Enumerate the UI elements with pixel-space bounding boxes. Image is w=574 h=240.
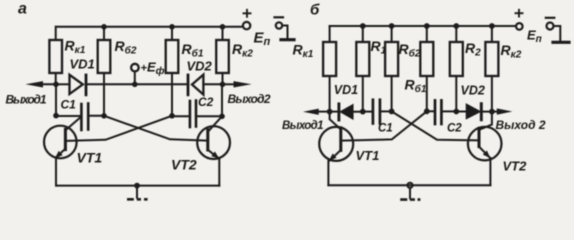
arrow output 1 (Выход1) [41, 83, 56, 85]
node dot rail/Rб1 [169, 24, 175, 30]
svg-text:VT1: VT1 [356, 148, 380, 163]
wire cross-coupling Rб1/C2 to VT1 base [342, 111, 426, 140]
resistor R2 [455, 26, 457, 42]
node dot Rб1 junction [424, 108, 430, 114]
node dot rail/Rб1 [424, 23, 430, 29]
resistor Rб2 [391, 26, 393, 42]
capacitor C2 [434, 100, 437, 124]
node dot C1 left [53, 113, 59, 119]
collector diagonal VT2 [209, 116, 222, 130]
node dot C1/Rб2 junction [101, 113, 107, 119]
wire collector node to VD1 cathode [330, 111, 337, 113]
node dot C2 right [219, 114, 225, 120]
wire C1 right plate to Rб2 node [381, 110, 391, 112]
node dot R2 junction [453, 109, 459, 115]
svg-text:VD2: VD2 [461, 84, 485, 98]
svg-text:а: а [18, 1, 27, 18]
arrow output 2 (Выход 2) [492, 111, 497, 113]
terminal +Eп (open circle) [243, 22, 250, 29]
svg-text:Выход1: Выход1 [282, 120, 324, 132]
plus sign of Eп terminal [244, 10, 251, 17]
wire emitter VT2 drop [218, 159, 220, 186]
node dot C2/Rб1 junction [169, 113, 175, 119]
node dot rail/Rб2 [389, 23, 395, 29]
node dot collector VT1 [53, 82, 59, 88]
wire C2 right plate to R2 node [443, 110, 457, 112]
svg-text:VD1: VD1 [334, 83, 358, 97]
svg-text:VD2: VD2 [187, 59, 213, 74]
terminal -Eп (open circle) [276, 22, 282, 28]
resistor Rк1 [55, 27, 57, 40]
terminal +Eп (open circle) [516, 23, 523, 30]
transistor VT2 [197, 126, 230, 159]
diode VD2 [187, 75, 190, 95]
collector diagonal VT2 [480, 112, 492, 130]
collector diagonal VT1 [330, 112, 341, 129]
wire C2 right plate to collector VT2 drop [197, 115, 222, 117]
resistor Rк2 [491, 26, 493, 42]
wire Eф node to VD2 cathode [135, 83, 188, 85]
wire Eф stem [134, 71, 136, 84]
capacitor C2 [189, 101, 192, 127]
chassis bar (common rail tap) [553, 41, 569, 44]
transistor VT1 [319, 127, 353, 161]
plus sign of Eп terminal [516, 10, 523, 17]
resistor Rб1 [426, 26, 428, 42]
wire R1 node to C1 [363, 111, 372, 113]
svg-text:VT2: VT2 [171, 157, 197, 173]
terminal +Eф (open circle) [131, 64, 139, 72]
arrow output 1 (Выход1) [316, 111, 330, 113]
node dot rail/Rк2 [489, 23, 495, 29]
arrow output 2 (Выход2) [223, 83, 236, 85]
chassis bar (common rail tap) [281, 38, 294, 41]
wire cross-coupling to VT1 base [67, 116, 172, 141]
wire to C2 left plate [172, 115, 189, 117]
transistor VT2 [468, 127, 502, 161]
resistor R1 [362, 26, 364, 42]
wire Rб1 node to C2 [427, 110, 434, 112]
svg-text:C2: C2 [198, 95, 214, 109]
diode VD1 [70, 75, 83, 94]
node dot ground [134, 183, 140, 189]
ground symbol [409, 188, 411, 198]
ground node (open circle) [407, 183, 412, 188]
svg-text:C1: C1 [378, 123, 393, 135]
wire emitter VT2 drop [489, 158, 491, 185]
diode VD2 [467, 104, 480, 118]
transistor VT1 [44, 126, 77, 159]
resistor Rб2 [103, 27, 105, 40]
wire bottom rail [56, 185, 219, 187]
svg-text:Выход2: Выход2 [228, 92, 271, 106]
wire emitter VT1 drop [55, 158, 57, 185]
svg-text:Выход1: Выход1 [6, 93, 47, 107]
resistor Rк2 [222, 27, 224, 40]
node dot rail/R1 [360, 23, 366, 29]
minus sign of -Eп terminal [275, 16, 284, 18]
svg-text:C2: C2 [447, 123, 462, 135]
wire VD1 anode to R1 node [353, 111, 363, 113]
wire VD2 cathode to collector VT2 node [481, 111, 492, 113]
wire collector node to VD1 anode [56, 83, 70, 85]
svg-text:Выход 2: Выход 2 [496, 118, 546, 132]
wire from minus terminal to chassis bar [554, 26, 561, 41]
node dot rail/R2 [453, 23, 459, 29]
minus sign of -Eп terminal [546, 17, 555, 19]
resistor Rб1 [171, 27, 173, 40]
node dot R1 junction [360, 109, 366, 115]
wire collector VT1 drop to C1 [55, 84, 57, 115]
wire C1 right plate to base node [89, 115, 104, 117]
wire VD2 anode to collector VT2 node [203, 83, 222, 85]
capacitor C1 [80, 104, 83, 130]
svg-text:VT2: VT2 [503, 159, 528, 174]
diode VD1 [337, 104, 340, 120]
node dot collector VT1 [327, 109, 333, 115]
wire top rail (+Eп bus) [56, 26, 243, 28]
svg-text:VT1: VT1 [77, 150, 103, 166]
node dot collector VT2 [489, 109, 495, 115]
node dot rail/Rк2 [220, 24, 226, 30]
svg-text:б: б [310, 2, 320, 19]
wire to C1 left plate [56, 115, 80, 117]
wire R2 node to VD2 anode [456, 111, 466, 113]
svg-text:VD1: VD1 [70, 57, 95, 72]
node dot Eф [132, 82, 138, 88]
resistor Rк1 [329, 26, 331, 42]
terminal -Eп (open circle) [547, 23, 554, 30]
wire from minus terminal to chassis bar [282, 26, 287, 39]
wire collector VT2 drop [221, 84, 223, 116]
node dot rail/Rб2 [101, 24, 107, 30]
node dot Rб2 junction [389, 109, 395, 115]
ground symbol [136, 186, 138, 198]
svg-text:C1: C1 [61, 98, 77, 112]
wire bottom rail [328, 184, 490, 186]
wire cross-coupling Rб2/C1 to VT2 base [392, 111, 478, 140]
wire VD1 cathode to Eф node [86, 83, 135, 85]
wire emitter VT1 drop [327, 161, 329, 185]
node dot collector VT2 [220, 82, 226, 88]
wire top rail (+Eп bus) [330, 25, 516, 27]
capacitor C1 [372, 100, 375, 124]
wire cross-coupling to VT2 base [104, 116, 206, 141]
